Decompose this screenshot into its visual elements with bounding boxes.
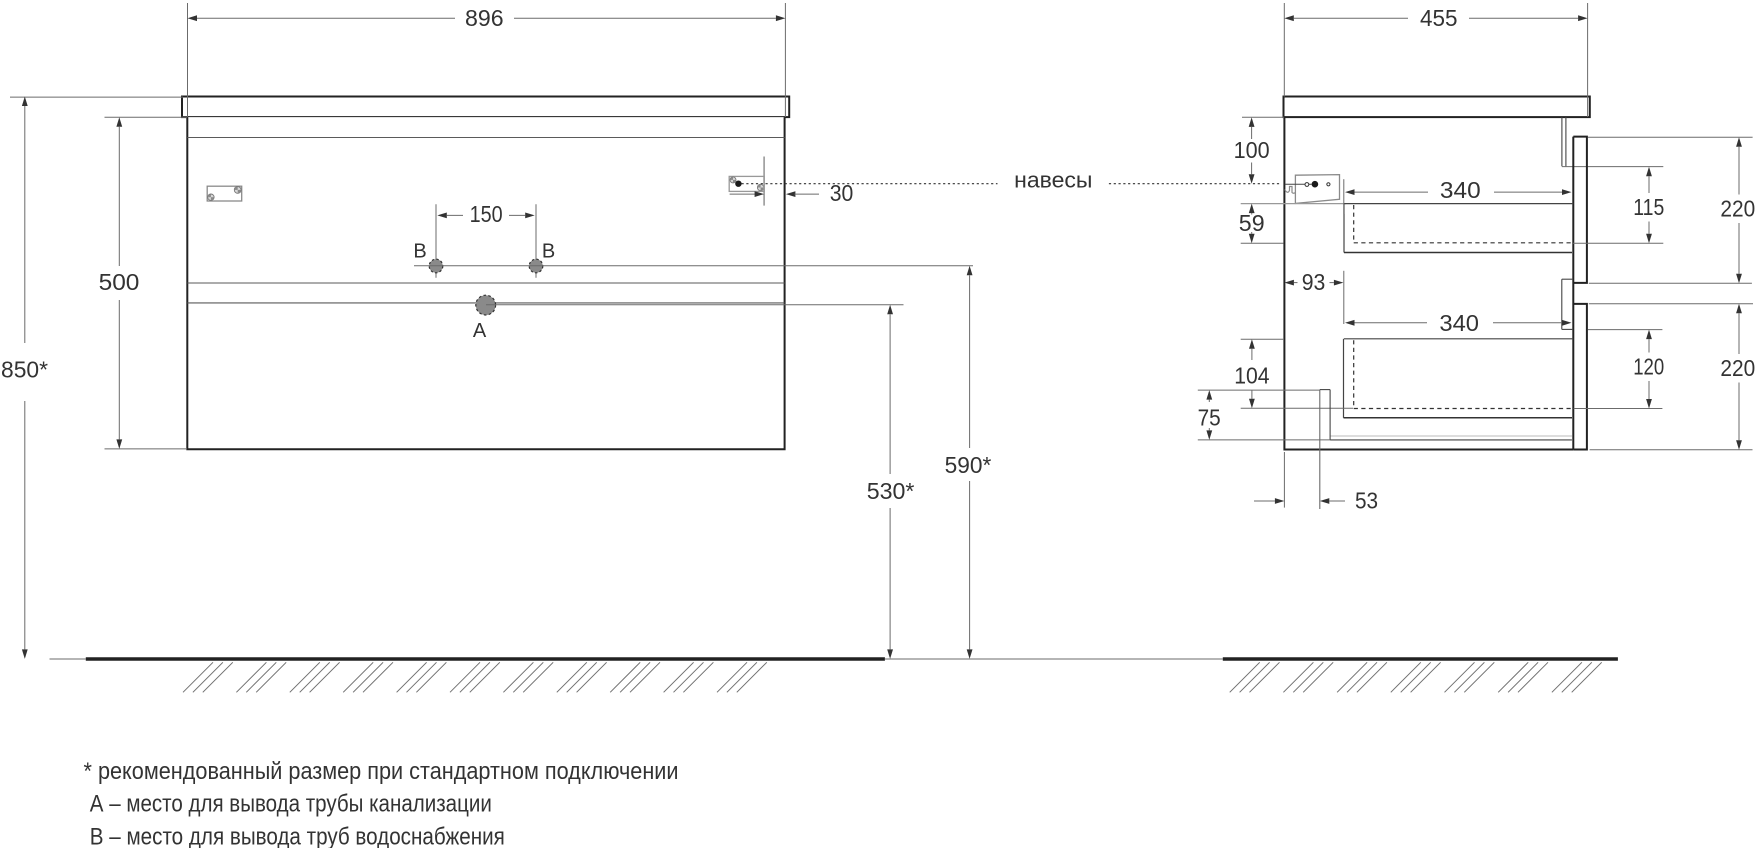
side hanger screw hole right <box>1327 183 1330 186</box>
right hanger mounting plate line <box>763 157 765 206</box>
svg-text:30: 30 <box>830 180 854 206</box>
toe kick step vertical outer <box>1319 390 1321 509</box>
bottom panel light line (side view) <box>1330 435 1572 437</box>
svg-text:100: 100 <box>1234 137 1270 163</box>
extension line 115 top right <box>1588 136 1753 138</box>
dimension 896 extension line right <box>784 3 786 117</box>
cabinet side panel outline (side view) <box>1284 117 1573 449</box>
drawer 2 box top line (side view) <box>1344 338 1573 340</box>
extension line 100 top <box>1242 116 1284 118</box>
svg-text:120: 120 <box>1633 354 1664 380</box>
label A <box>473 320 487 342</box>
extension line 340-1 left <box>1343 179 1345 214</box>
front edge strip below countertop (side view) <box>1562 117 1566 166</box>
left wall hanger bracket (front view) <box>207 186 242 201</box>
hole B right extension line <box>535 204 537 278</box>
drawer 2 front (side view) <box>1573 304 1587 450</box>
extension line 115 bottom <box>1572 242 1663 244</box>
label B right <box>542 241 555 263</box>
svg-text:850*: 850* <box>1 357 48 383</box>
dotted hanger axis line (right segment) <box>1109 183 1282 185</box>
floor line under side view <box>1223 657 1618 660</box>
dimension 53 <box>1254 488 1378 514</box>
extension line 104 bottom <box>1241 407 1353 409</box>
svg-text:В: В <box>542 241 555 263</box>
dimension 104 <box>1234 339 1269 408</box>
dimension 75 <box>1198 390 1221 440</box>
dimension 500 (cabinet height) <box>99 117 140 449</box>
dimension 850 (to floor) <box>1 97 48 659</box>
label навесы <box>1014 168 1092 193</box>
dimension 93 extension line <box>1343 271 1345 324</box>
side hanger adjuster hook <box>1285 187 1296 194</box>
svg-text:340: 340 <box>1439 310 1479 336</box>
hole B left extension line <box>435 204 437 278</box>
svg-text:530*: 530* <box>867 478 915 504</box>
drawer 2 box bottom line <box>1344 417 1573 419</box>
dimension 93 <box>1284 269 1343 295</box>
extension line 220b bottom <box>1590 449 1753 451</box>
right wall hanger bracket (front view) <box>729 176 764 191</box>
dimension 340 drawer 1 <box>1345 177 1572 203</box>
dimension 340 drawer 2 <box>1345 310 1572 336</box>
drawer 2 box left edge <box>1343 339 1345 418</box>
dimension 530 (drain height) <box>867 305 915 659</box>
dotted hanger axis line (left segment) <box>742 183 998 185</box>
svg-text:93: 93 <box>1302 269 1326 295</box>
side hanger line to pin <box>1285 183 1312 185</box>
plinth inner bottom line <box>1330 439 1572 441</box>
floor line middle thin segment <box>885 658 1223 660</box>
extension line 59 top (gray) <box>1241 203 1346 205</box>
extension line 53 left <box>1283 452 1285 508</box>
drawer 1 box left edge <box>1343 204 1345 253</box>
svg-text:590*: 590* <box>945 452 992 478</box>
svg-text:А: А <box>473 320 487 342</box>
floor hatching left <box>183 662 767 692</box>
floor line under front view <box>86 657 885 660</box>
dimension 455 extension line right <box>1587 3 1589 117</box>
countertop (side view) <box>1284 97 1590 118</box>
dimension 455 extension line left <box>1283 3 1285 97</box>
svg-text:340: 340 <box>1440 177 1481 203</box>
legend line 3 <box>90 824 505 848</box>
right hanger pin <box>735 181 741 187</box>
cabinet body outline (front view) <box>187 117 784 449</box>
dimension 500 extension line top <box>105 116 188 118</box>
svg-text:115: 115 <box>1633 194 1664 220</box>
dimension 590 (water supply height) <box>945 266 992 659</box>
toe kick step vertical inner <box>1329 390 1331 440</box>
hole B left (water supply) <box>429 259 443 273</box>
extension line through B holes to 590 dim <box>414 265 973 267</box>
dimension 896 <box>188 5 786 31</box>
dimension 30 hanger offset <box>730 180 854 206</box>
dimension 896 extension line left <box>187 3 189 117</box>
svg-text:* рекомендованный размер при с: * рекомендованный размер при стандартном… <box>84 758 679 785</box>
extension line 120 bottom <box>1574 408 1663 410</box>
extension line through A to 530 dim <box>486 304 904 306</box>
extension line 120 top <box>1588 329 1662 331</box>
top rail line (front view) <box>187 137 784 139</box>
drawer 2 box inner dashed <box>1354 340 1574 408</box>
svg-text:500: 500 <box>99 269 140 295</box>
dimension 500 extension line bottom <box>105 448 188 450</box>
legend line 1 <box>84 758 679 785</box>
svg-text:150: 150 <box>470 201 503 227</box>
dimension 220 lower <box>1720 304 1755 450</box>
dimension 150 between B holes <box>437 201 534 227</box>
hole B right (water supply) <box>529 259 543 273</box>
side hanger plate <box>1295 175 1339 204</box>
hole A (drain) <box>476 295 496 315</box>
svg-text:навесы: навесы <box>1014 168 1092 193</box>
drawer divider upper line (front view) <box>187 282 784 284</box>
svg-text:В: В <box>413 241 426 263</box>
floor hatching right <box>1230 662 1602 692</box>
dimension 455 <box>1284 5 1587 31</box>
svg-text:220: 220 <box>1720 196 1755 222</box>
countertop (front view) <box>182 97 789 118</box>
side hanger screw hole left <box>1305 183 1309 187</box>
drawer 1 front (side view) <box>1573 137 1587 283</box>
dimension 100 (hanger axis depth) <box>1234 117 1270 183</box>
svg-text:220: 220 <box>1720 355 1755 381</box>
dimension 850 extension line <box>10 96 183 98</box>
drawer divider lower line (front view) <box>187 302 784 304</box>
drawer 1 box bottom line <box>1344 252 1572 254</box>
gap strip between drawer fronts (side view) <box>1562 279 1573 329</box>
svg-text:В – место для вывода труб водо: В – место для вывода труб водоснабжения <box>90 824 505 848</box>
extension line 220b top <box>1589 303 1753 305</box>
extension line 75 top <box>1198 389 1320 391</box>
dimension 220 upper <box>1720 137 1755 283</box>
legend line 2 <box>90 790 492 817</box>
svg-text:455: 455 <box>1420 5 1458 31</box>
extension line 59 bottom <box>1241 242 1284 244</box>
svg-text:А – место для вывода трубы кан: А – место для вывода трубы канализации <box>90 790 492 817</box>
extension line 104 top <box>1241 338 1284 340</box>
extension line 75 bottom <box>1198 439 1330 441</box>
drawer 1 box top line (side view) <box>1344 203 1573 205</box>
dimension 115 <box>1633 167 1664 243</box>
dimension 120 <box>1633 330 1664 409</box>
drawer 1 box inner dashed <box>1354 205 1572 243</box>
svg-text:104: 104 <box>1234 363 1269 389</box>
svg-text:53: 53 <box>1355 488 1378 514</box>
toe kick step top <box>1320 389 1330 391</box>
floor line left thin segment <box>50 658 86 660</box>
front plane vertical (side view) <box>1572 137 1574 450</box>
svg-text:75: 75 <box>1198 405 1221 431</box>
svg-text:896: 896 <box>465 5 504 31</box>
dimension 59 <box>1239 204 1265 244</box>
label B left <box>413 241 426 263</box>
front edge step line (side view) <box>1562 166 1663 168</box>
extension line 220a bottom <box>1589 282 1752 284</box>
side hanger pin <box>1312 181 1319 188</box>
svg-text:59: 59 <box>1239 210 1265 236</box>
